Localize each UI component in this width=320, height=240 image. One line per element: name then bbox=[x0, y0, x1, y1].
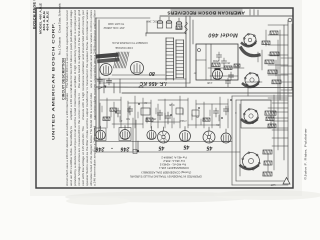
wire bbox=[119, 116, 121, 122]
speaker unit box bbox=[196, 44, 238, 80]
svg-text:250M: 250M bbox=[213, 59, 219, 62]
wire bbox=[112, 74, 165, 76]
wire bbox=[189, 16, 191, 83]
resistor R5 bbox=[265, 60, 274, 64]
svg-text:45: 45 bbox=[159, 145, 166, 151]
filter capacitor C3 bbox=[176, 23, 182, 29]
svg-text:45: 45 bbox=[184, 144, 191, 150]
svg-text:CONDENSER BY 246-1: CONDENSER BY 246-1 bbox=[159, 166, 189, 170]
transformer core bbox=[114, 52, 118, 68]
wire stub bbox=[272, 137, 288, 139]
wire grid lead bbox=[113, 102, 115, 128]
choke coil bbox=[185, 22, 188, 34]
wire bbox=[182, 109, 184, 115]
wire bbox=[257, 52, 259, 62]
wire ground bus bbox=[96, 86, 293, 89]
speaker terminal bbox=[198, 49, 201, 52]
trimmer box bbox=[133, 150, 137, 154]
wire stub bbox=[268, 44, 288, 46]
resistor R8 bbox=[265, 111, 276, 115]
wire grid lead bbox=[227, 99, 229, 128]
wire B+ bus bbox=[99, 82, 190, 84]
condenser C5 bbox=[129, 106, 131, 109]
socket box bbox=[241, 100, 271, 128]
wire bbox=[103, 79, 105, 93]
wire bbox=[100, 99, 121, 101]
wire bbox=[275, 60, 277, 76]
wire bbox=[191, 114, 193, 120]
terminal bbox=[288, 18, 292, 22]
resistor R2 bbox=[270, 31, 278, 35]
wire grid lead bbox=[203, 102, 205, 128]
shield crescent bbox=[241, 48, 259, 56]
wire bbox=[265, 30, 267, 46]
wire can lead bbox=[146, 21, 148, 33]
wire stub bbox=[268, 24, 288, 26]
wire grid lead bbox=[219, 97, 221, 128]
svg-text:45: 45 bbox=[207, 145, 214, 151]
svg-text:.5 MF: .5 MF bbox=[168, 103, 175, 106]
speaker socket bbox=[243, 153, 260, 170]
svg-text:OSC. 2468: OSC. 2468 bbox=[146, 20, 158, 22]
wire bbox=[277, 40, 279, 150]
wire grid lead bbox=[99, 103, 101, 128]
wire stub bbox=[272, 120, 288, 122]
svg-text:2 MEG: 2 MEG bbox=[179, 119, 186, 121]
wire bbox=[209, 110, 211, 116]
tube V7 bbox=[158, 131, 170, 143]
tube V9 bbox=[203, 131, 215, 143]
wire grid lead bbox=[195, 100, 197, 128]
wire bbox=[128, 102, 151, 104]
svg-text:AMERICAN BOSCH RECEIVERS: AMERICAN BOSCH RECEIVERS bbox=[167, 11, 245, 16]
IF transformer box bbox=[141, 108, 150, 115]
coupling condenser C4 bbox=[117, 108, 119, 111]
svg-text:For 460-A1 - 42483-2: For 460-A1 - 42483-2 bbox=[159, 163, 186, 167]
wire bbox=[232, 95, 293, 97]
wire cathode bus bbox=[96, 151, 240, 153]
wire bbox=[158, 99, 188, 101]
wire grid lead bbox=[179, 96, 181, 128]
wire stub bbox=[268, 97, 288, 99]
wire bbox=[227, 106, 229, 112]
resistor R15 bbox=[224, 66, 232, 70]
wire stub bbox=[268, 107, 288, 109]
resistor R11 bbox=[263, 150, 272, 154]
resistor R4 bbox=[270, 52, 279, 56]
wire bbox=[247, 88, 249, 96]
tube socket V3 bbox=[245, 73, 259, 87]
wire stub bbox=[281, 81, 293, 83]
junction bbox=[230, 99, 232, 101]
wire stub bbox=[272, 129, 288, 131]
wire bus 2 bbox=[122, 92, 293, 94]
stamp AMERICAN BOSCH RECEIVERS bbox=[171, 8, 243, 15]
tube shield box bbox=[95, 128, 107, 141]
wire bbox=[218, 115, 220, 121]
svg-text:For 464-A : 888-2: For 464-A : 888-2 bbox=[163, 159, 185, 163]
wire stub bbox=[281, 65, 293, 67]
svg-text:'': '' bbox=[111, 145, 113, 150]
wire grid lead bbox=[142, 98, 144, 128]
svg-text:BOSCH PAGE 8-9: BOSCH PAGE 8-9 bbox=[33, 0, 37, 29]
wire stub bbox=[272, 145, 288, 147]
wire bbox=[137, 112, 139, 118]
condenser C7 bbox=[167, 112, 169, 116]
rectifier tube 80 bbox=[131, 62, 144, 75]
inner divider bbox=[210, 44, 212, 80]
wire grid lead bbox=[106, 98, 108, 128]
resistor R9 bbox=[266, 117, 274, 121]
filter capacitor C1 bbox=[157, 22, 163, 28]
wire bbox=[208, 67, 244, 69]
wire bbox=[188, 124, 220, 126]
junction bbox=[170, 114, 172, 116]
wire grid lead bbox=[211, 104, 213, 128]
junction bbox=[221, 117, 223, 119]
wire bbox=[261, 50, 263, 70]
wire loop outer bbox=[232, 96, 240, 185]
resistor R1 bbox=[176, 26, 182, 29]
resistor R12 bbox=[264, 161, 272, 165]
wire grid lead bbox=[187, 98, 189, 128]
wire grid lead bbox=[171, 103, 173, 128]
wire bbox=[164, 113, 166, 119]
wire antenna lead bbox=[95, 18, 97, 152]
transformer label block bbox=[96, 52, 120, 63]
wire bbox=[173, 118, 175, 124]
wire bbox=[246, 81, 262, 83]
svg-text:246: 246 bbox=[96, 146, 106, 152]
wire can bus bbox=[146, 32, 186, 34]
wire bbox=[128, 107, 130, 113]
condenser C13 bbox=[225, 106, 227, 109]
wire bbox=[267, 154, 269, 161]
condenser C6 bbox=[159, 110, 161, 113]
wire top bus bbox=[160, 15, 293, 17]
svg-text:UNITED AMERICAN BOSCH CORP.: UNITED AMERICAN BOSCH CORP. bbox=[51, 22, 55, 140]
svg-text:ANT. COIL 246812: ANT. COIL 246812 bbox=[103, 26, 125, 29]
wire bbox=[192, 20, 194, 44]
wire stub bbox=[268, 64, 288, 66]
svg-text:(Tuning) CONDENSER DIAL ASSEMB: (Tuning) CONDENSER DIAL ASSEMBLY bbox=[141, 171, 192, 175]
page ticks bbox=[249, 10, 251, 16]
svg-text:©John F. Rider, Publisher: ©John F. Rider, Publisher bbox=[304, 128, 308, 180]
resistor R21 bbox=[234, 64, 240, 67]
wire bbox=[185, 16, 187, 87]
pilot lamp triangle bbox=[283, 178, 290, 185]
wire grid lead bbox=[127, 101, 129, 128]
condenser C12 bbox=[215, 108, 217, 111]
wire right riser 3 bbox=[279, 30, 281, 100]
wire stub bbox=[281, 57, 293, 59]
grid cap bbox=[215, 68, 221, 70]
page frame border bbox=[36, 8, 293, 188]
junction bbox=[115, 111, 117, 113]
svg-text:CONNECT TO CHASSIS PLUG: CONNECT TO CHASSIS PLUG bbox=[112, 41, 148, 44]
resistor R18 bbox=[110, 108, 117, 111]
wire grid lead bbox=[150, 100, 152, 128]
wire stub bbox=[272, 102, 288, 104]
scan shadow bbox=[65, 190, 320, 205]
wire bbox=[101, 106, 103, 112]
junction bbox=[137, 150, 139, 152]
svg-text:282: 282 bbox=[138, 85, 143, 89]
switch arrow bbox=[98, 86, 106, 89]
junction bbox=[198, 107, 200, 109]
condenser C15 bbox=[223, 58, 225, 61]
svg-text:TO ANT. GND: TO ANT. GND bbox=[108, 22, 124, 26]
condenser C9 bbox=[227, 78, 229, 81]
trimmer box bbox=[192, 110, 199, 116]
wire grid lead bbox=[164, 99, 166, 128]
resistor R6 bbox=[103, 117, 110, 120]
trimmer box bbox=[176, 108, 183, 114]
wire pair bbox=[132, 118, 134, 151]
svg-text:246: 246 bbox=[121, 146, 131, 152]
bypass condenser C10 bbox=[99, 77, 101, 80]
tube V1 bbox=[100, 64, 112, 76]
tube V4 bbox=[96, 130, 106, 140]
wire grid lead bbox=[134, 96, 136, 128]
wire stub bbox=[268, 127, 288, 129]
condenser C14 bbox=[218, 52, 220, 55]
wire stub bbox=[281, 89, 293, 91]
interstage tube V12 bbox=[213, 70, 223, 80]
wire bbox=[151, 121, 180, 123]
filter capacitor C2 bbox=[166, 22, 172, 28]
tube V5 bbox=[120, 130, 130, 140]
junction bbox=[138, 103, 140, 105]
svg-text:OPERATED IN TANDEM BY TRAILING: OPERATED IN TANDEM BY TRAILING PULLEYS (… bbox=[130, 175, 202, 179]
wire bbox=[155, 108, 157, 114]
resistor R13 bbox=[263, 172, 272, 176]
svg-text:464 A,B,E: 464 A,B,E bbox=[46, 11, 50, 31]
wire bbox=[196, 103, 228, 105]
resistor R3 bbox=[262, 41, 270, 45]
resistor R10 bbox=[268, 124, 276, 128]
svg-text:L27: L27 bbox=[270, 183, 275, 187]
resistor R19 bbox=[268, 70, 277, 74]
tube socket V2 bbox=[244, 34, 256, 46]
tube shield box bbox=[119, 128, 131, 141]
wire bbox=[112, 123, 143, 125]
resistor R7 bbox=[146, 118, 153, 121]
svg-text:Model 460: Model 460 bbox=[208, 32, 238, 38]
svg-text:Circuit Data, Schematic: Circuit Data, Schematic bbox=[58, 2, 62, 33]
wire bbox=[291, 24, 293, 90]
resistor R17 bbox=[203, 118, 210, 121]
wire stub bbox=[268, 74, 288, 76]
svg-text:FOR VOLTAGE: FOR VOLTAGE bbox=[115, 46, 133, 49]
wire stub bbox=[272, 111, 288, 113]
resistor R20 bbox=[272, 80, 281, 84]
resistor R14 bbox=[212, 63, 220, 67]
tube V10 bbox=[221, 133, 231, 143]
wire bbox=[146, 117, 148, 123]
wire heater bus bbox=[96, 78, 186, 80]
condenser C8 bbox=[230, 72, 232, 75]
tube V6 bbox=[147, 130, 156, 139]
svg-text:No.1 Chassis: No.1 Chassis bbox=[58, 36, 62, 55]
wire right riser 1 bbox=[287, 20, 289, 180]
svg-text:80: 80 bbox=[149, 70, 155, 76]
wire stub bbox=[268, 117, 288, 119]
svg-text:.1 MF: .1 MF bbox=[206, 81, 213, 84]
wire bbox=[273, 95, 275, 170]
wire stub bbox=[268, 54, 288, 56]
wire grid lead bbox=[157, 104, 159, 128]
wire bbox=[210, 75, 238, 77]
svg-text:For 461-A: 246864-2: For 461-A: 246864-2 bbox=[161, 156, 187, 160]
power transformer T1 primary bbox=[165, 38, 167, 80]
bypass condenser C11 bbox=[108, 78, 110, 81]
wire grid lead bbox=[120, 97, 122, 128]
tube V8 bbox=[180, 131, 191, 142]
wire stub bbox=[268, 34, 288, 36]
wire right riser 2 bbox=[283, 25, 285, 160]
power transformer T1 secondary bbox=[175, 40, 177, 78]
wire bbox=[110, 111, 112, 117]
tube socket V11 bbox=[244, 109, 258, 123]
wire filament bus bbox=[96, 141, 232, 143]
wire bbox=[200, 119, 202, 125]
wire stub bbox=[281, 73, 293, 75]
